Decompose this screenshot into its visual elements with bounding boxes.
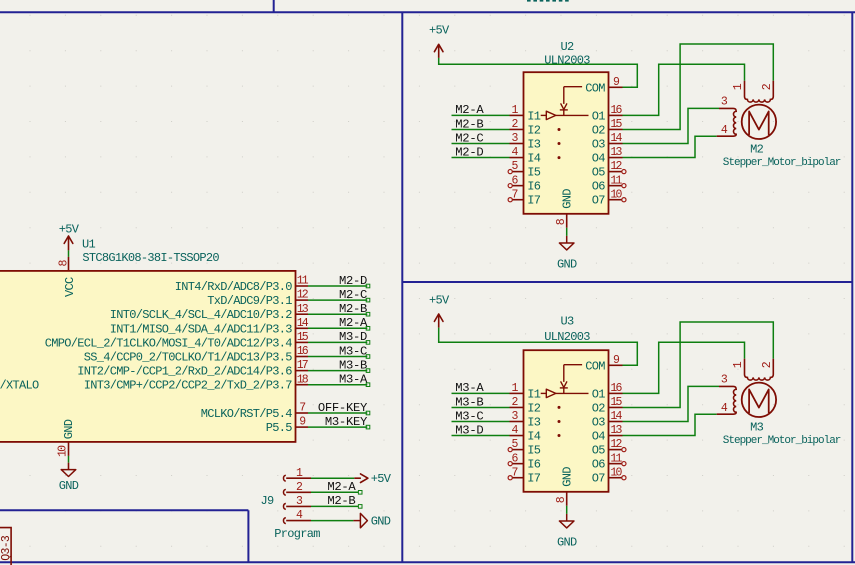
U2 pin 5 I5 [508,160,541,179]
motor M2 coil B (pins 3-4) [717,96,737,138]
U3 pin 14 O3 [592,410,623,429]
svg-text:O5: O5 [592,166,606,180]
U2 pin 12 O5 [592,160,626,179]
svg-text:O6: O6 [592,180,606,194]
label OFF-KEY [318,401,368,415]
U3 pin 1 I1 [510,382,541,401]
J9 pin 1 [283,467,311,481]
label M3-A [455,381,484,395]
U1 pin 12 P3.1 [207,289,309,308]
J9 pin 3 [283,495,311,509]
wire U3 O1 to motor pin 1 [623,342,745,393]
svg-text:GND: GND [560,189,574,209]
svg-text:+5V: +5V [429,294,450,308]
U1 pin name /XTALO (left side, cut off) [0,379,39,393]
svg-text:I1: I1 [527,387,541,401]
U3 pin 2 I2 [510,396,541,415]
U1 pin 16 P3.5 [84,345,309,364]
U1 pin 10 GND [57,419,76,457]
label M2-C [455,131,483,145]
wire M2-B net from U1 pin 13 [308,312,370,316]
wire M3-A net from U1 pin 18 [308,383,370,387]
svg-text:M2: M2 [750,143,764,157]
label M3-B [339,358,367,372]
label M2-D [455,145,483,159]
J9 value Program [274,527,320,541]
U2 pin 1 I1 [510,104,541,123]
U1 pin 17 P3.6 [77,359,308,378]
svg-text:ULN2003: ULN2003 [544,53,590,67]
U2 pin 10 O7 [592,188,626,207]
svg-text:COM: COM [585,81,605,95]
U2 pin 3 I3 [510,132,541,151]
wire U2 pin 8 to ground [566,228,568,243]
svg-text:I2: I2 [527,123,541,137]
label M2-C [339,288,367,302]
svg-text:M3-KEY: M3-KEY [325,415,368,429]
wire +5V to U3 pin 9 COM [439,328,638,366]
svg-text:M3-D: M3-D [339,330,367,344]
wire U2 O2 to motor pin 2 [623,44,774,129]
ground symbol below U1 [59,470,79,493]
wire M3-D net to U3 pin 4 [452,435,510,437]
power symbol +5V (U3 COM supply) [429,294,450,328]
U2 internal darlington/diode graphic [541,87,589,159]
label M3-D [339,330,367,344]
svg-text:GND: GND [371,514,391,528]
wire M2-A net from J9 pin 2 [311,491,362,495]
U1 pin 15 P3.4 [45,331,309,350]
label M2-B (J9) [327,494,355,508]
motor M2 reference designator [750,143,764,157]
svg-text:M2-C: M2-C [339,288,367,302]
svg-text:I5: I5 [527,166,541,180]
svg-text:+5V: +5V [59,223,80,237]
wire U1 pin 10 to ground [68,456,70,470]
power symbol +5V (U2 COM supply) [429,23,450,58]
svg-text:M2-B: M2-B [327,494,355,508]
U1 pin 13 P3.2 [110,303,309,322]
wire U3 O2 to motor pin 2 [623,322,774,407]
U2 pin 7 I7 [508,188,541,207]
svg-text:ULN2003: ULN2003 [544,330,590,344]
U3 internal darlington/diode graphic [541,365,589,437]
label M3-KEY [325,415,368,429]
ic U2 ULN2003 body [524,72,609,214]
U2 pin 15 O2 [592,118,623,137]
svg-text:GND: GND [560,467,574,487]
motor M2 coil A (pins 1-2) [732,81,774,102]
U3 pin 12 O5 [592,438,626,457]
U3 pin 6 I6 [508,452,541,471]
svg-text:Program: Program [274,527,320,541]
U1 pin 8 VCC [58,257,78,297]
wire M3-A net to U3 pin 1 [452,392,510,394]
wire M2-C net to U2 pin 3 [452,143,510,145]
svg-text:SS_4/CCP0_2/T0CLKO/T1/ADC13/P3: SS_4/CCP0_2/T0CLKO/T1/ADC13/P3.5 [84,351,293,365]
motor M3 coil A (pins 1-2) [732,359,774,380]
wire U3 O3 to motor pin 3 [623,386,720,421]
svg-text:MCLKO/RST/P5.4: MCLKO/RST/P5.4 [201,407,293,421]
U3 pin 13 O4 [592,424,623,443]
ground symbol below U3 [557,521,577,550]
svg-text:I1: I1 [527,109,541,123]
wire M2-B net to U2 pin 2 [452,128,510,130]
svg-text:I6: I6 [527,458,541,472]
U3 pin 9 COM [585,354,622,373]
U2 pin 13 O4 [592,146,623,165]
svg-text:O4: O4 [592,430,606,444]
svg-text:M2-A: M2-A [339,316,368,330]
svg-text:M2-C: M2-C [455,131,483,145]
svg-text:U3: U3 [560,315,574,329]
U2 pin 14 O3 [592,132,623,151]
svg-text:I3: I3 [527,138,541,152]
label M2-B [339,302,367,316]
svg-text:M3-C: M3-C [455,409,483,423]
U3 pin 16 O1 [592,382,623,401]
U3 pin 11 O6 [592,452,626,471]
U1 value STC8G1K08-38I-TSSOP20 [82,251,219,265]
svg-text:M2-B: M2-B [455,117,483,131]
label M3-C [455,409,483,423]
svg-text:GND: GND [557,258,577,272]
svg-text:P5.5: P5.5 [266,421,293,435]
svg-text:M2-D: M2-D [455,145,483,159]
svg-text:O2: O2 [592,123,606,137]
svg-text:O7: O7 [592,194,606,208]
svg-text:O1: O1 [592,387,606,401]
wire +5V to U1 VCC pin [68,250,70,257]
U2 pin 9 COM [585,76,622,95]
svg-text:O1: O1 [592,109,606,123]
svg-text:I7: I7 [527,472,541,486]
svg-text:I4: I4 [527,152,541,166]
label M3-B [455,395,483,409]
U3 pin 3 I3 [510,410,541,429]
svg-text:INT3/CMP+/CCP2/CCP2_2/TxD_2/P3: INT3/CMP+/CCP2/CCP2_2/TxD_2/P3.7 [84,379,293,393]
svg-text:7: 7 [299,402,305,415]
svg-text:M2-B: M2-B [339,302,367,316]
svg-text:INT4/RxD/ADC8/P3.0: INT4/RxD/ADC8/P3.0 [175,280,293,294]
svg-text:M3-D: M3-D [455,423,483,437]
connector J9 reference [260,494,274,508]
svg-text:VCC: VCC [63,277,77,297]
svg-text:M3-B: M3-B [339,358,367,372]
global label Q3-3 (cut off) [0,528,13,565]
motor M3 reference designator [750,421,764,435]
U2 pin 16 O1 [592,104,623,123]
label M2-A [339,316,368,330]
svg-text:U1: U1 [82,238,96,252]
svg-text:INT1/MISO_4/SDA_4/ADC11/P3.3: INT1/MISO_4/SDA_4/ADC11/P3.3 [110,322,293,336]
svg-text:O4: O4 [592,152,606,166]
svg-text:INT2/CMP-/CCP1_2/RxD_2/ADC14/P: INT2/CMP-/CCP1_2/RxD_2/ADC14/P3.6 [77,365,292,379]
wire M2-A net to U2 pin 1 [452,114,510,116]
U1 pin 14 P3.3 [110,317,309,336]
U1 pin 9 P5.5 [266,416,308,435]
U2 pin 6 I6 [508,174,541,193]
motor M2 value Stepper_Motor_bipolar [723,157,841,169]
svg-text:17: 17 [297,359,308,372]
wire M3-C net from U1 pin 16 [308,355,370,359]
svg-text:+5V: +5V [371,472,392,486]
U3 reference designator [560,315,574,329]
U1 pin 18 P3.7 [84,373,309,392]
ic U3 ULN2003 body [524,350,609,492]
svg-text:M3: M3 [750,421,764,435]
U2 value ULN2003 [544,53,590,67]
svg-text:O6: O6 [592,458,606,472]
U3 pin 10 O7 [592,466,626,485]
U3 pin 5 I5 [508,438,541,457]
svg-text:OFF-KEY: OFF-KEY [318,401,368,415]
U1 reference designator [82,238,96,252]
label M3-D [455,423,483,437]
U2 pin 11 O6 [592,174,626,193]
svg-text:I5: I5 [527,444,541,458]
svg-text:STC8G1K08-38I-TSSOP20: STC8G1K08-38I-TSSOP20 [82,251,219,265]
label M3-C [339,344,367,358]
wire M3-KEY net from U1 pin 9 [308,425,370,429]
svg-text:M2-A: M2-A [455,103,484,117]
wire U2 O4 to motor pin 4 [623,136,717,157]
cut-off value text of symbol above viewport [527,0,569,2]
wire M3-D net from U1 pin 15 [308,341,370,345]
svg-text:GND: GND [557,536,577,550]
J9 pin 4 [283,509,311,523]
wire M3-B net from U1 pin 17 [308,369,370,373]
svg-text:Q3-3: Q3-3 [0,535,13,561]
label M2-A [455,103,484,117]
U1 pin 11 P3.0 [175,275,309,294]
U1 pin 7 MCLKO/RST/P5.4 [201,402,308,421]
ground symbol below U2 [557,243,577,272]
svg-text:M3-B: M3-B [455,395,483,409]
U3 pin 8 GND [555,467,574,506]
svg-text:M3-C: M3-C [339,344,367,358]
U2 pin 2 I2 [510,118,541,137]
wire U2 O3 to motor pin 3 [623,108,720,143]
power symbol +5V right of J9 pin 1 [354,472,392,486]
wire M2-A net from U1 pin 14 [308,327,370,331]
svg-text:O3: O3 [592,416,606,430]
wire J9 pin 4 to ground [311,520,353,522]
wire M2-B net from J9 pin 3 [311,505,362,509]
svg-text:Stepper_Motor_bipolar: Stepper_Motor_bipolar [723,157,841,169]
label M2-D [339,274,367,288]
ground symbol right of J9 pin 4 [353,513,390,528]
svg-text:I3: I3 [527,416,541,430]
svg-text:/XTALO: /XTALO [0,379,39,393]
U2 reference designator [560,40,574,54]
wire J9 pin 1 to +5V [311,477,354,479]
svg-text:O5: O5 [592,444,606,458]
motor M3 value Stepper_Motor_bipolar [723,435,841,447]
svg-text:J9: J9 [260,494,274,508]
U2 pin 4 I4 [510,146,541,165]
wire U2 O1 to motor pin 1 [623,64,745,115]
U3 pin 4 I4 [510,424,541,443]
wire U3 pin 8 to ground [566,506,568,521]
motor M2 body circle [742,105,776,139]
svg-text:U2: U2 [560,40,574,54]
U3 pin 7 I7 [508,466,541,485]
wire M3-B net to U3 pin 2 [452,406,510,408]
svg-text:O2: O2 [592,401,606,415]
U3 value ULN2003 [544,330,590,344]
svg-text:INT0/SCLK_4/SCL_4/ADC10/P3.2: INT0/SCLK_4/SCL_4/ADC10/P3.2 [110,308,293,322]
svg-text:I7: I7 [527,194,541,208]
svg-text:Stepper_Motor_bipolar: Stepper_Motor_bipolar [723,435,841,447]
svg-text:M3-A: M3-A [339,373,368,387]
svg-text:M3-A: M3-A [455,381,484,395]
U3 pin 15 O2 [592,396,623,415]
svg-text:I4: I4 [527,430,541,444]
wire OFF-KEY net from U1 pin 7 [308,411,370,415]
label M2-A (J9) [327,480,356,494]
label M2-B [455,117,483,131]
wire +5V to U2 pin 9 COM [439,58,638,87]
wire U3 O4 to motor pin 4 [623,414,717,435]
svg-text:M2-D: M2-D [339,274,367,288]
svg-text:M2-A: M2-A [327,480,356,494]
svg-text:TxD/ADC9/P3.1: TxD/ADC9/P3.1 [207,294,292,308]
wire M2-D net from U1 pin 11 [308,284,370,288]
wire M3-C net to U3 pin 3 [452,421,510,423]
svg-text:O3: O3 [592,138,606,152]
wire M2-C net from U1 pin 12 [308,298,370,302]
U2 pin 8 GND [555,189,574,228]
power symbol +5V above U1 [59,223,80,251]
svg-text:+5V: +5V [429,23,450,37]
svg-text:I6: I6 [527,180,541,194]
ic U1 body [0,271,296,442]
svg-text:GND: GND [62,419,76,439]
J9 pin 2 [283,481,311,495]
motor M3 body circle [742,383,776,417]
svg-text:O7: O7 [592,472,606,486]
svg-text:CMPO/ECL_2/T1CLKO/MOSI_4/T0/AD: CMPO/ECL_2/T1CLKO/MOSI_4/T0/ADC12/P3.4 [45,336,293,350]
motor M3 coil B (pins 3-4) [717,374,737,416]
svg-text:I2: I2 [527,401,541,415]
wire M2-D net to U2 pin 4 [452,157,510,159]
label M3-A [339,373,368,387]
svg-text:COM: COM [585,359,605,373]
svg-text:GND: GND [59,479,79,493]
